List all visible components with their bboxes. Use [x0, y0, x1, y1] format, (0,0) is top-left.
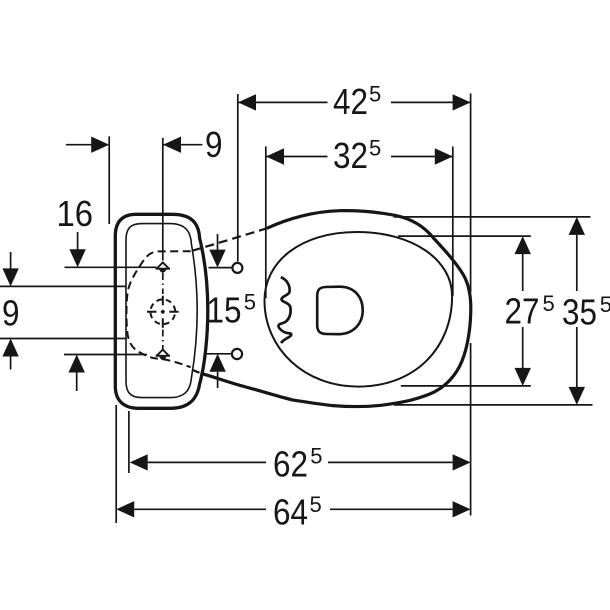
svg-text:62: 62 [273, 444, 308, 485]
dimension 32.5 extension left [265, 146, 267, 298]
drain crosshair circle [150, 299, 175, 324]
cistern outer outline [115, 214, 208, 408]
dimension 35.5 leader upper [394, 216, 591, 218]
bowl outline hidden upper-left dashed [192, 228, 267, 251]
dimension 64.5 extension left [115, 405, 117, 523]
dimension 64.5 line [134, 508, 452, 510]
centerline dash-dot segments [162, 273, 164, 349]
lower-left leader line [64, 354, 147, 356]
drain crosshair cross [147, 311, 179, 313]
dimension 42.5 extension left [237, 94, 239, 262]
dimension 9 top extension line [108, 136, 110, 224]
dimension 15.5 lower arrow [209, 354, 225, 372]
svg-text:5: 5 [543, 291, 555, 316]
dimension 16 leader line [65, 266, 157, 268]
dimension 35.5 leader lower [394, 404, 593, 406]
svg-text:9: 9 [2, 292, 20, 333]
dimension 9 left lower line [0, 338, 126, 340]
svg-text:32: 32 [333, 135, 368, 176]
dimension 42.5 arrows [238, 94, 471, 110]
svg-text:5: 5 [244, 290, 256, 315]
dimension 27.5 leader upper [398, 235, 531, 237]
dimension 9 left upper line [0, 285, 126, 287]
svg-text:5: 5 [310, 492, 322, 517]
dimension 15.5 lower leader [206, 353, 232, 355]
dimension 62.5 line [148, 461, 453, 463]
dimension 42.5 line [238, 101, 471, 103]
dimension 9 left arrows [10, 252, 12, 269]
cistern inner line [126, 224, 197, 398]
fixing screw symbol upper [156, 263, 170, 273]
dimension 62.5 arrows [130, 454, 471, 470]
dimension 35.5 vertical and arrows [576, 235, 578, 387]
lower-left arrow [69, 355, 85, 373]
cistern lid dashed interior shape [126, 251, 190, 367]
dimension 64.5 arrows [116, 501, 470, 517]
dimension 9 top arrows [91, 137, 181, 153]
svg-text:5: 5 [369, 82, 381, 107]
dimension 32.5 extension right [452, 147, 454, 297]
bowl outer outline solid [201, 211, 471, 407]
dimension 27.5 vertical and arrows [522, 254, 524, 368]
dimension 15.5 upper leader [209, 267, 233, 269]
svg-text:64: 64 [273, 492, 308, 533]
svg-text:35: 35 [562, 292, 597, 333]
water surface D-shaped hole [317, 287, 363, 335]
dimension 32.5 line [266, 156, 453, 158]
svg-text:42: 42 [333, 81, 368, 122]
bowl outline hidden lower-left dashed [192, 370, 201, 373]
flush rim squiggle [278, 277, 291, 343]
dimension 15.5 upper arrow [217, 234, 219, 251]
seat bolt hole upper [232, 263, 242, 273]
svg-text:15: 15 [207, 290, 242, 331]
svg-text:5: 5 [310, 444, 322, 469]
centerline vertical (solid upper part, also 9-dim extension) [162, 138, 164, 261]
dimension 62.5 extension left [128, 411, 130, 473]
seat bolt hole lower [232, 349, 242, 359]
seat opening inner ellipse [265, 232, 453, 387]
svg-text:27: 27 [505, 291, 540, 332]
dimension 9 top line [66, 144, 203, 146]
svg-text:9: 9 [205, 124, 223, 165]
dimension 32.5 arrows [266, 148, 453, 164]
dimension 27.5 leader lower [401, 385, 531, 387]
svg-text:5: 5 [600, 292, 610, 317]
dimension 42.5/62.5/64.5 extension right [470, 93, 472, 515]
fixing screw symbol lower [156, 350, 170, 360]
svg-text:5: 5 [369, 136, 381, 161]
svg-text:16: 16 [57, 193, 94, 234]
dimension 16 arrow [77, 232, 79, 251]
